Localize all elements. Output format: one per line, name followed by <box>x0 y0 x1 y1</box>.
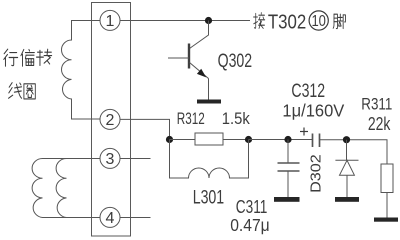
lower deflection coil winding A <box>32 159 100 218</box>
svg-text:3: 3 <box>106 151 115 168</box>
plus sign of C312 <box>300 128 308 136</box>
ground (C311) <box>274 197 300 202</box>
hanzi xing (row/horizontal) <box>4 49 18 66</box>
hanzi pian (deflect) <box>21 50 34 67</box>
wire node B to C312 <box>249 139 313 141</box>
svg-text:T302: T302 <box>268 11 306 33</box>
svg-text:10: 10 <box>311 13 326 30</box>
hanzi quan (coil) <box>24 84 35 99</box>
wire node A to R312 <box>170 139 196 141</box>
ground (Q302 emitter) <box>197 100 221 104</box>
pin 4 <box>100 207 120 227</box>
capacitor C312 electrolytic <box>313 134 320 148</box>
connector shell <box>92 3 131 237</box>
resistor R311 <box>381 164 393 193</box>
wire C312 to R311 corner <box>320 140 388 164</box>
capacitor C311 <box>278 140 300 198</box>
hanzi zhuan (turn) <box>36 49 51 65</box>
hanzi xian (wire) <box>9 83 22 99</box>
hanzi jie (connect) <box>254 13 265 29</box>
pin 2 <box>100 109 120 129</box>
lower deflection coil winding B <box>56 159 66 218</box>
wire pin3 stub <box>120 158 151 160</box>
svg-text:C311: C311 <box>236 197 268 217</box>
ground (D302) <box>335 197 359 202</box>
transistor Q302 <box>168 21 209 100</box>
svg-text:1μ/160V: 1μ/160V <box>282 101 344 121</box>
wire R311 to ground <box>386 193 388 218</box>
node A junction dot <box>166 136 173 143</box>
svg-text:1.5k: 1.5k <box>222 110 251 128</box>
svg-text:0.47μ: 0.47μ <box>230 215 270 235</box>
wire pin1 to T302 <box>120 20 250 22</box>
diode D302 <box>335 140 358 197</box>
resistor R312 <box>195 133 223 145</box>
wire pin2 to node A <box>120 119 170 139</box>
svg-text:R312: R312 <box>177 110 205 128</box>
svg-text:1: 1 <box>106 13 115 30</box>
horizontal deflection coil upper winding <box>62 21 101 120</box>
wire R312 to node B <box>223 139 249 141</box>
ground (R311) <box>374 218 398 222</box>
wire pin4 stub <box>120 217 151 219</box>
node C junction dot <box>284 136 291 143</box>
svg-text:22k: 22k <box>368 114 391 134</box>
circled pin 10 <box>309 11 328 30</box>
junction node on pin1 wire <box>205 17 212 24</box>
svg-text:L301: L301 <box>193 188 225 209</box>
svg-text:D302: D302 <box>307 154 324 193</box>
node B junction dot <box>245 136 252 143</box>
pin 1 <box>100 10 120 30</box>
svg-text:C312: C312 <box>291 81 325 102</box>
svg-text:Q302: Q302 <box>218 51 253 72</box>
hanzi jiao (pin/foot) <box>333 14 345 28</box>
node D junction dot <box>343 136 350 143</box>
svg-text:2: 2 <box>106 112 115 129</box>
svg-text:4: 4 <box>106 210 115 227</box>
pin 3 <box>100 148 120 168</box>
svg-text:R311: R311 <box>361 95 392 114</box>
inductor L301 (parallel branch) <box>170 140 249 179</box>
